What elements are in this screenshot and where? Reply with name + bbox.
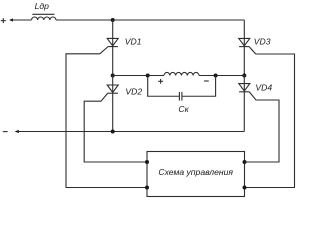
wire mid rail left segment [113, 75, 164, 77]
node gate VD1 to box [145, 186, 149, 190]
terminal minus sign [3, 131, 8, 133]
wire VD4 cathode to minus rail corner [243, 92, 245, 132]
thyristor VD4 [239, 84, 250, 92]
svg-text:Ск: Ск [178, 104, 189, 114]
wire VD3 cathode to mid rail [243, 47, 245, 76]
wire VD4 anode [243, 76, 245, 92]
svg-text:Схема управления: Схема управления [158, 167, 233, 177]
wire top rail left segment [13, 19, 32, 21]
wire top rail right segment [56, 19, 244, 21]
wire mid rail right segment [199, 75, 244, 77]
thyristor VD3 [239, 38, 250, 46]
svg-text:Lдр: Lдр [35, 1, 50, 11]
capacitor Ск [179, 92, 182, 101]
node left mid junction [111, 74, 115, 78]
wire VD2 gate [84, 93, 147, 162]
svg-text:VD3: VD3 [254, 36, 271, 46]
node tank right [214, 74, 218, 78]
wire tank right branch [182, 76, 216, 97]
wire VD3 gate [245, 47, 295, 188]
wire VD3 anode [243, 20, 245, 47]
terminal plus sign [1, 18, 6, 23]
wire VD2 cathode to minus rail [112, 93, 114, 131]
wire VD2 anode [112, 76, 114, 94]
svg-text:VD2: VD2 [125, 87, 142, 97]
svg-text:VD4: VD4 [255, 83, 272, 93]
wire VD1 cathode to mid rail [112, 47, 114, 76]
node minus rail junction [111, 130, 115, 134]
wire VD4 gate [245, 92, 280, 162]
wire minus rail [18, 131, 244, 133]
thyristor VD1 [107, 38, 118, 46]
label plus polarity [158, 79, 163, 84]
node right mid junction [242, 74, 246, 78]
node gate VD2 to box [145, 160, 149, 164]
node top junction [111, 18, 115, 22]
wire tank left branch [148, 76, 180, 97]
node tank left [146, 74, 150, 78]
arrow negative output [15, 130, 19, 133]
label minus polarity [204, 80, 209, 82]
inductor tank coil [164, 72, 199, 75]
wire VD1 anode [112, 20, 114, 47]
control unit box Схема управления [147, 152, 245, 197]
thyristor VD2 [107, 85, 118, 93]
inductor Lдр [32, 14, 56, 20]
wire VD1 gate [66, 47, 147, 188]
svg-text:VD1: VD1 [125, 37, 142, 47]
node gate VD4 to box [243, 160, 247, 164]
arrow positive output [9, 18, 13, 21]
node gate VD3 to box [243, 186, 247, 190]
